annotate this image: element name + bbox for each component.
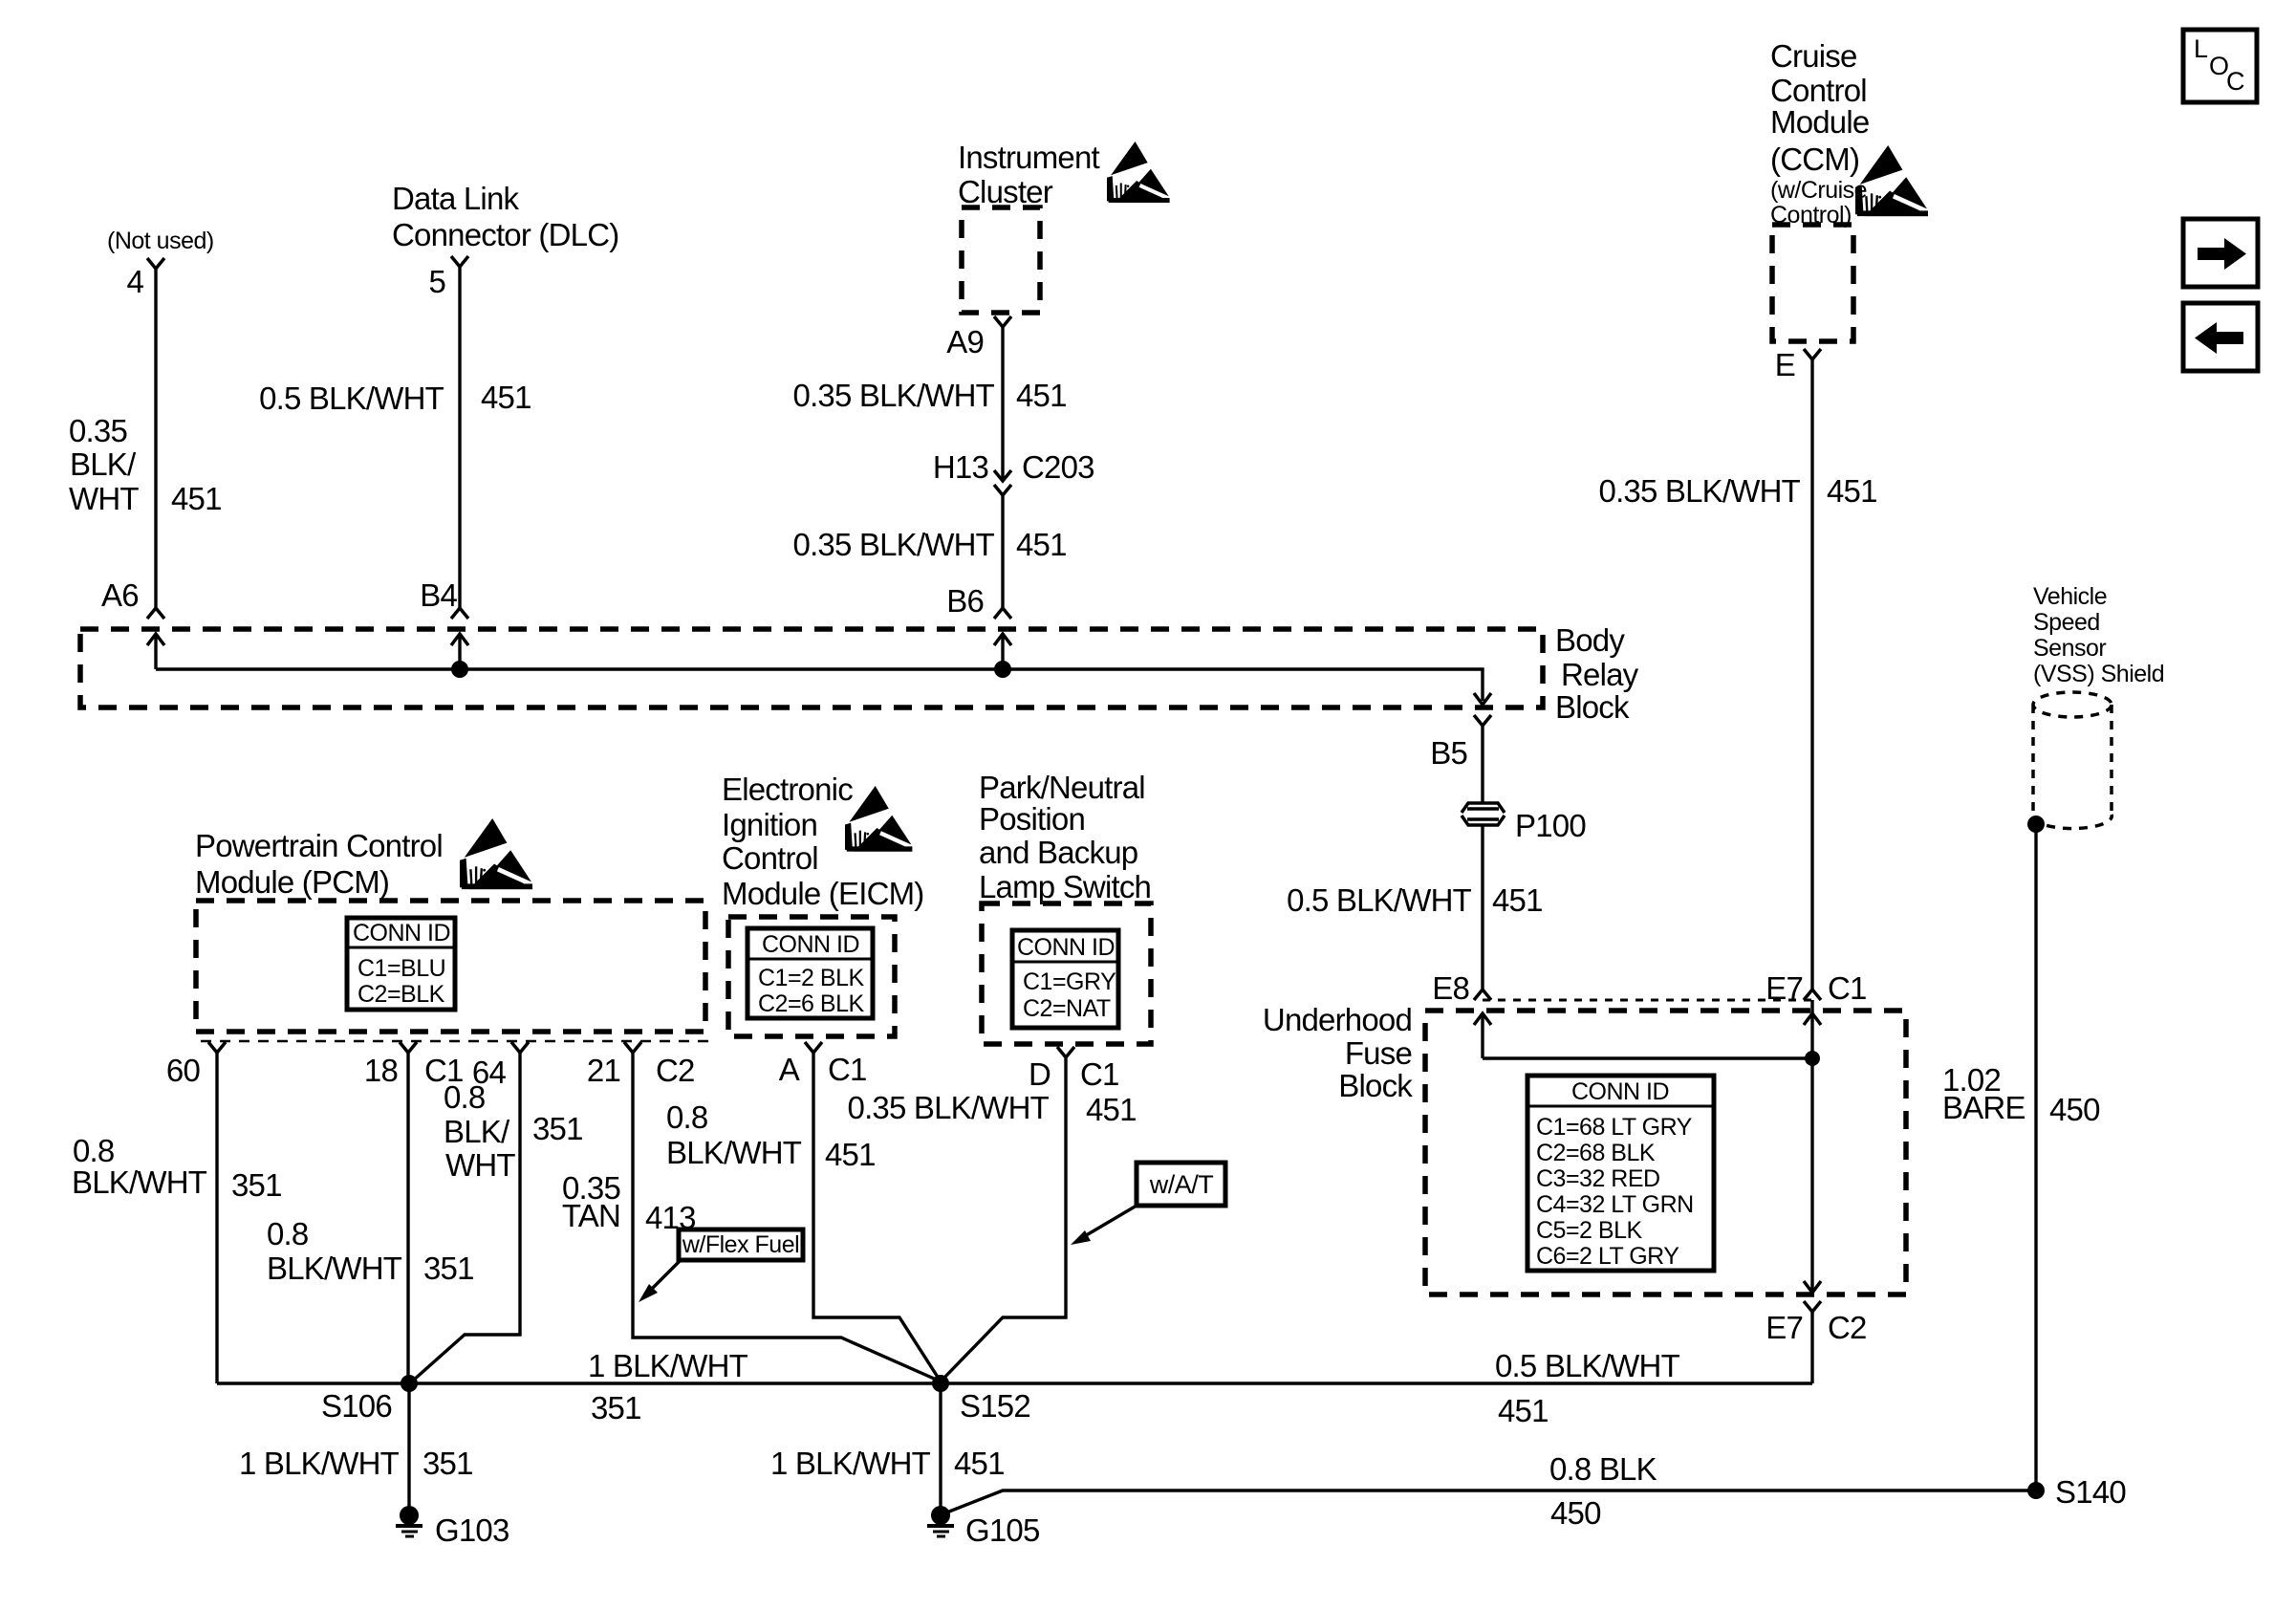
svg-text:351: 351 [591,1390,641,1425]
svg-text:Relay: Relay [1561,657,1639,692]
svg-text:L: L [2194,34,2208,63]
w/A/T leader arrow [1083,1206,1137,1237]
svg-text:and Backup: and Backup [979,835,1137,870]
svg-text:WHT: WHT [445,1147,515,1183]
svg-text:Powertrain Control: Powertrain Control [195,828,443,863]
svg-text:451: 451 [1492,882,1543,918]
pin 64 chevron [511,1042,529,1053]
svg-text:E: E [1775,347,1795,382]
Park/Neutral CONN ID table [1012,930,1118,1028]
svg-text:351: 351 [422,1446,473,1481]
svg-text:WHT: WHT [69,481,139,516]
svg-text:1 BLK/WHT: 1 BLK/WHT [588,1348,748,1383]
svg-text:CONN ID: CONN ID [762,931,859,958]
node E7 C2 Y-connector [1804,1301,1821,1312]
svg-text:E7: E7 [1765,1310,1803,1345]
splice S106 dot [401,1375,418,1392]
wire pin D (0.35 BLK/WHT 451) [941,1057,1066,1382]
node B4 chevron [451,608,468,619]
svg-text:Sensor: Sensor [2033,635,2106,662]
svg-text:Control: Control [722,840,818,876]
wire pin A (0.8 BLK/WHT 451) [813,1053,941,1382]
pin A9 Y-connector [994,316,1011,327]
svg-text:w/Flex Fuel: w/Flex Fuel [682,1231,799,1258]
svg-text:C6=2 LT GRY: C6=2 LT GRY [1536,1243,1679,1270]
svg-text:BLK/WHT: BLK/WHT [267,1251,402,1286]
svg-text:1 BLK/WHT: 1 BLK/WHT [239,1446,400,1481]
UFB entry arrow E8 [1481,1013,1484,1058]
svg-text:C1: C1 [828,1052,867,1087]
svg-text:D: D [1029,1056,1051,1092]
wire pin 60 (0.8 BLK/WHT 351) [215,1053,218,1383]
svg-text:0.8: 0.8 [444,1079,485,1115]
svg-text:S152: S152 [960,1388,1030,1424]
LOC legend box [2183,30,2257,102]
pin 5 Y-connector [451,256,468,267]
svg-text:S106: S106 [321,1388,392,1424]
stub arrow B6 [1001,635,1004,669]
E8 branch wire to CCM column [1483,1056,1812,1059]
svg-text:18: 18 [364,1053,398,1088]
wire G105 to S140 (0.8 BLK 450) [944,1490,2036,1513]
svg-text:w/A/T: w/A/T [1149,1170,1214,1199]
svg-text:BLK/WHT: BLK/WHT [666,1135,802,1170]
EICM box [728,917,895,1036]
wire C203 to B6 (0.35 BLK/WHT 451) [1001,495,1004,608]
PCM connector face dashed line [201,1040,712,1043]
svg-text:0.5 BLK/WHT: 0.5 BLK/WHT [259,381,444,416]
svg-text:(Not used): (Not used) [107,228,214,254]
ground G105 [927,1506,954,1536]
svg-text:351: 351 [231,1167,282,1203]
svg-text:C: C [2226,67,2244,96]
svg-text:1 BLK/WHT: 1 BLK/WHT [770,1446,931,1481]
PCM CONN ID table [347,918,455,1010]
svg-text:Electronic: Electronic [722,772,853,807]
ESD symbol (EICM) [845,786,916,852]
svg-text:BARE: BARE [1942,1090,2025,1125]
UFB CONN ID table [1527,1076,1714,1271]
svg-text:C2=BLK: C2=BLK [357,981,445,1008]
svg-text:0.35 BLK/WHT: 0.35 BLK/WHT [793,378,995,413]
svg-text:451: 451 [1086,1092,1137,1127]
VSS shield symbol [2033,692,2112,829]
svg-text:C2=NAT: C2=NAT [1023,995,1111,1022]
svg-text:Control: Control [1770,73,1867,108]
ESD symbol (CCM) [1855,145,1932,216]
stub arrow B4 [458,635,461,669]
svg-text:Ignition: Ignition [722,807,817,842]
svg-text:0.8: 0.8 [666,1099,707,1135]
pin 21 chevron [624,1042,641,1053]
svg-text:C1: C1 [1828,970,1867,1006]
svg-text:450: 450 [1550,1495,1601,1531]
svg-text:451: 451 [171,481,222,516]
svg-text:C2: C2 [656,1053,695,1088]
svg-text:Cruise: Cruise [1770,38,1857,74]
svg-text:TAN: TAN [562,1198,620,1233]
svg-text:C203: C203 [1022,449,1094,485]
splice S140 dot [2027,1482,2045,1499]
svg-text:5: 5 [428,264,445,299]
svg-text:0.8 BLK: 0.8 BLK [1549,1451,1657,1487]
svg-text:S140: S140 [2055,1474,2126,1510]
svg-text:0.35 BLK/WHT: 0.35 BLK/WHT [1599,473,1801,509]
svg-text:Block: Block [1338,1068,1413,1103]
svg-text:450: 450 [2049,1092,2100,1127]
junction dot E8/E7 branch [1805,1051,1820,1066]
wire E to E7 (0.35 BLK/WHT 451) [1810,359,1813,990]
svg-text:451: 451 [1016,527,1067,562]
Park/Neutral pin D chevron [1057,1047,1074,1057]
svg-text:Lamp Switch: Lamp Switch [979,869,1151,904]
CCM wire inside UFB [1810,1000,1813,1293]
svg-text:(VSS) Shield: (VSS) Shield [2033,661,2164,687]
svg-text:60: 60 [166,1053,201,1088]
Body Relay Block box [80,629,1543,707]
wire pin 18 (0.8 BLK/WHT 351) [406,1053,409,1383]
svg-text:Speed: Speed [2033,609,2100,636]
svg-text:B6: B6 [946,583,984,619]
svg-text:Cluster: Cluster [958,174,1053,209]
svg-text:G103: G103 [435,1512,509,1548]
EICM CONN ID table [747,928,873,1018]
splice S152 dot [932,1375,949,1392]
UFB entry arrow E7 [1804,1013,1821,1025]
ESD symbol (Instrument Cluster) [1107,141,1173,203]
svg-text:Connector (DLC): Connector (DLC) [392,217,618,252]
wire S106 to G103 (1 BLK/WHT 351) [407,1383,410,1515]
svg-text:Module (EICM): Module (EICM) [722,876,923,911]
svg-text:Block: Block [1555,689,1630,725]
CCM connector box [1772,225,1853,341]
ESD symbol (PCM) [460,818,536,889]
svg-text:21: 21 [587,1053,620,1088]
svg-text:C2=68 BLK: C2=68 BLK [1536,1140,1656,1166]
svg-text:E7: E7 [1765,970,1803,1006]
svg-text:C4=32 LT GRN: C4=32 LT GRN [1536,1191,1694,1218]
svg-text:C1=GRY: C1=GRY [1023,968,1116,995]
wire pin 21 (0.35 TAN 413) [633,1053,941,1382]
svg-text:P100: P100 [1515,808,1586,843]
wire 4 (0.35 BLK/WHT 451) [154,269,157,608]
svg-text:351: 351 [423,1251,474,1286]
svg-text:C1=2 BLK: C1=2 BLK [758,965,864,991]
node E8 chevron [1474,990,1491,1000]
pin E Y-connector [1804,349,1821,359]
svg-text:A6: A6 [101,577,139,613]
svg-text:G105: G105 [965,1512,1040,1548]
svg-text:(CCM): (CCM) [1770,141,1859,177]
main ground bus wire 351/451 [217,1382,1812,1384]
wire E7 C2 down to main bus [1810,1312,1813,1383]
svg-text:0.8: 0.8 [267,1216,308,1251]
svg-text:C2=6 BLK: C2=6 BLK [758,990,864,1017]
svg-text:Module: Module [1770,104,1869,140]
wire pin 64 (0.8 BLK/WHT 351) [413,1053,520,1381]
svg-text:0.35: 0.35 [69,413,127,448]
Instrument Cluster connector box [962,207,1040,313]
bus arrow down at B5 [1474,693,1491,705]
pin 60 chevron [208,1042,226,1053]
ground G103 [396,1506,422,1536]
pin 18 chevron [400,1042,417,1053]
PCM box [196,901,705,1032]
stub arrow A6 [154,635,157,669]
svg-text:B4: B4 [420,577,457,613]
svg-text:451: 451 [1827,473,1877,509]
Park/Neutral switch box [982,903,1151,1044]
svg-text:C3=32 RED: C3=32 RED [1536,1165,1660,1192]
svg-text:351: 351 [532,1111,583,1146]
junction dot B4 bus [451,661,468,678]
svg-text:H13: H13 [933,449,988,485]
svg-text:451: 451 [1498,1393,1549,1428]
svg-text:(w/Cruise: (w/Cruise [1770,177,1867,204]
svg-text:0.35 BLK/WHT: 0.35 BLK/WHT [793,527,995,562]
w/Flex Fuel callout box [679,1229,803,1260]
svg-text:E8: E8 [1432,970,1469,1006]
w/A/T callout box [1137,1163,1225,1206]
wire P100 to E8 (0.5 BLK/WHT 451) [1481,824,1484,990]
svg-text:0.8: 0.8 [73,1133,114,1168]
svg-text:A: A [779,1052,800,1087]
svg-text:C1: C1 [1080,1056,1119,1092]
connector C203 arrow [994,470,1011,481]
right arrow box [2183,219,2258,287]
svg-text:0.5 BLK/WHT: 0.5 BLK/WHT [1495,1348,1680,1383]
svg-text:C2: C2 [1828,1310,1867,1345]
pin 4 Y-connector [147,258,164,269]
svg-text:Vehicle: Vehicle [2033,583,2107,610]
connector C203 Y-connector [994,485,1011,495]
node A6 chevron [147,608,164,619]
svg-text:BLK/: BLK/ [70,446,137,482]
svg-text:A9: A9 [946,324,984,359]
wire B5 to P100 [1481,726,1484,804]
svg-text:Body: Body [1555,622,1625,658]
svg-text:BLK/: BLK/ [444,1114,510,1149]
svg-text:Module (PCM): Module (PCM) [195,864,389,900]
Underhood Fuse Block box [1425,1011,1906,1295]
svg-text:CONN ID: CONN ID [1017,934,1115,961]
svg-text:B5: B5 [1430,735,1467,771]
svg-text:451: 451 [954,1446,1005,1481]
node B6 chevron [994,608,1011,619]
svg-text:CONN ID: CONN ID [353,920,450,946]
svg-text:451: 451 [1016,378,1067,413]
shield drain wire 450 down to S140 [2034,824,2037,1490]
svg-text:4: 4 [126,264,143,299]
w/Flex Fuel leader arrow [650,1260,681,1291]
svg-text:Position: Position [979,801,1085,837]
svg-text:C5=2 BLK: C5=2 BLK [1536,1217,1642,1244]
svg-text:BLK/WHT: BLK/WHT [72,1164,207,1200]
svg-text:C1=BLU: C1=BLU [357,955,445,982]
svg-text:C1=68 LT GRY: C1=68 LT GRY [1536,1114,1693,1141]
node E7 chevron [1804,990,1821,1000]
svg-text:Underhood: Underhood [1263,1002,1412,1037]
VSS shield junction dot [2027,816,2045,833]
svg-text:Data Link: Data Link [392,181,520,216]
body relay block bus wire [156,669,1483,701]
right arrow [2198,238,2246,270]
wire S152 to G105 (1 BLK/WHT 451) [939,1383,942,1515]
wire A9 to C203 (0.35 BLK/WHT 451) [1001,327,1004,481]
junction dot B6 bus [994,661,1011,678]
svg-text:Park/Neutral: Park/Neutral [979,770,1145,805]
wire 5 (0.5 BLK/WHT 451) [458,267,461,608]
in-line connector P100 [1462,803,1505,825]
EICM pin A chevron [805,1042,822,1053]
svg-text:Instrument: Instrument [958,140,1100,175]
svg-text:451: 451 [481,380,531,415]
svg-text:0.35 BLK/WHT: 0.35 BLK/WHT [848,1090,1050,1125]
svg-text:451: 451 [825,1137,876,1172]
svg-text:0.5 BLK/WHT: 0.5 BLK/WHT [1287,882,1472,918]
left arrow [2195,322,2243,354]
svg-text:Fuse: Fuse [1345,1035,1412,1071]
UFB exit arrow down to E7 C2 [1804,1281,1821,1293]
dotted connector line E8-E7 [1483,999,1812,1002]
svg-text:CONN ID: CONN ID [1571,1078,1669,1105]
left arrow box [2183,303,2258,371]
node B5 Y-connector [1474,715,1491,726]
